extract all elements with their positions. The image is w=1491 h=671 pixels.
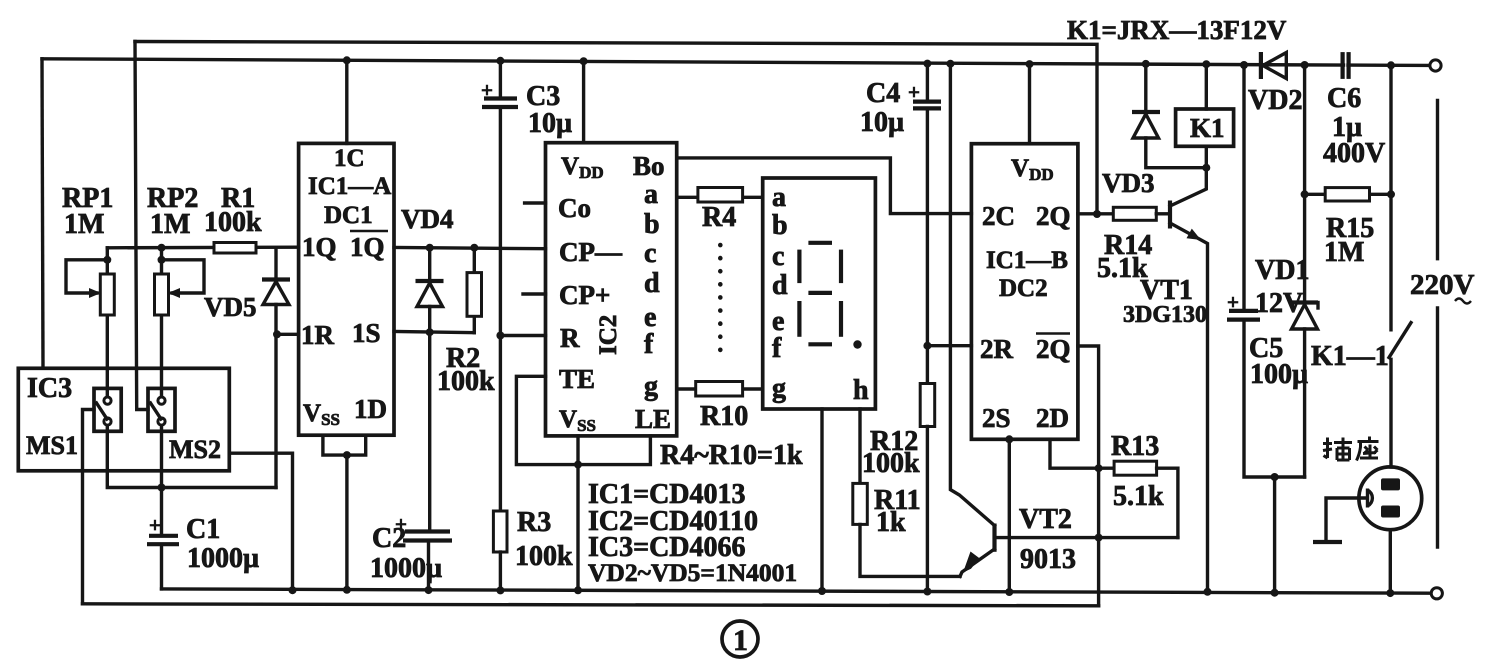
transistor VT1 [1170, 168, 1212, 596]
label R3 [515, 507, 573, 572]
svg-text:R: R [560, 323, 580, 353]
svg-text:400V: 400V [1323, 138, 1385, 169]
label R11 [874, 485, 921, 538]
svg-text:h: h [853, 375, 869, 406]
svg-text:VD3: VD3 [1102, 168, 1155, 198]
wire 2Q row [1078, 212, 1113, 215]
svg-text:MS2: MS2 [169, 435, 221, 464]
label C5 [1249, 333, 1308, 390]
resistor R14 [1113, 207, 1168, 220]
label K1-1 [1311, 341, 1389, 372]
svg-text:1S: 1S [352, 318, 381, 348]
svg-text:R13: R13 [1111, 431, 1159, 462]
terminal top [1430, 60, 1441, 71]
label R12 [862, 426, 920, 479]
diode VD5 [262, 248, 290, 488]
pin tick CP+ [523, 292, 546, 295]
svg-text:2Q: 2Q [1036, 334, 1071, 364]
box IC3 [18, 368, 229, 471]
wire 2Qbar line B [83, 604, 1099, 606]
wire 1Q row [107, 245, 298, 249]
node 2Q-R14 junction [1093, 210, 1101, 218]
capacitor C2 [395, 512, 452, 594]
resistor R1 [214, 243, 256, 254]
svg-text:100k: 100k [862, 448, 920, 479]
svg-text:1R: 1R [301, 320, 335, 350]
transistor VT2 [960, 524, 995, 577]
svg-text:1k: 1k [876, 507, 906, 538]
wire K1-1 branch [1387, 61, 1395, 330]
zener VD1 [1290, 303, 1318, 478]
svg-text:a: a [644, 179, 658, 210]
wire 1Qbar row to CP- [394, 248, 546, 249]
node H1 ground [289, 586, 297, 594]
svg-text:12V: 12V [1255, 288, 1303, 319]
node C1 tap [158, 484, 166, 492]
pin tick Co [525, 201, 546, 204]
svg-text:C4: C4 [866, 78, 900, 109]
svg-text:K1: K1 [1190, 113, 1225, 143]
node VD4 top [426, 244, 434, 252]
svg-text:1Q: 1Q [350, 232, 385, 262]
label C6 [1323, 83, 1385, 169]
svg-text:10µ: 10µ [528, 108, 572, 139]
svg-text:CP—: CP— [559, 237, 623, 267]
svg-text:R10: R10 [700, 401, 748, 432]
switch MS1 [94, 388, 121, 431]
svg-text:IC1—A: IC1—A [308, 173, 391, 200]
svg-text:220V: 220V [1410, 269, 1475, 301]
wire RP2 stem [160, 248, 163, 401]
label display pins [772, 182, 869, 406]
wire 2Q control top line [135, 42, 1097, 215]
svg-text:R3: R3 [517, 507, 551, 538]
svg-text:TE: TE [559, 364, 595, 394]
node R13 left junction [1095, 464, 1103, 472]
svg-text:VD4: VD4 [401, 204, 454, 234]
label 220V [1410, 269, 1475, 304]
wire 2R row [923, 342, 971, 350]
earth ground [1313, 498, 1367, 542]
svg-text:d: d [644, 268, 660, 299]
svg-text:f: f [772, 333, 782, 364]
svg-text:DC2: DC2 [999, 275, 1048, 302]
label MS1 [26, 431, 78, 460]
label IC list [588, 479, 797, 587]
label VT2 [1019, 504, 1076, 575]
svg-text:a: a [772, 182, 786, 213]
svg-text:MS1: MS1 [26, 431, 78, 460]
wire TE LE VSS loop [516, 376, 650, 594]
svg-text:2C: 2C [982, 201, 1015, 231]
wire MS2 out to C1 [160, 422, 163, 536]
wire rail to VT2 collector [946, 60, 994, 526]
label R15 [1324, 213, 1374, 268]
resistor R13 [1114, 461, 1178, 537]
svg-text:10µ: 10µ [860, 107, 904, 138]
svg-text:LE: LE [635, 404, 671, 434]
svg-text:1C: 1C [334, 145, 365, 172]
box IC2 [546, 143, 677, 436]
wire Bo to 2C [677, 158, 972, 214]
dotted R5-R9 [718, 245, 723, 362]
label R1 [204, 183, 262, 238]
wire R pin from C3R3 node [496, 332, 545, 340]
wire VDD IC2 [580, 57, 588, 143]
resistor R15 [1305, 188, 1395, 201]
svg-text:g: g [644, 371, 658, 402]
svg-text:f: f [644, 329, 654, 360]
box IC1-A [299, 143, 394, 435]
wire RP2 wiper loop [162, 260, 205, 298]
svg-text:VD2: VD2 [1248, 85, 1302, 116]
label VD5 [204, 292, 257, 322]
svg-text:2Q: 2Q [1036, 201, 1071, 231]
svg-text:VD1: VD1 [1255, 255, 1309, 286]
svg-text:K1=JRX—13F12V: K1=JRX—13F12V [1067, 15, 1287, 45]
svg-text:DC1: DC1 [324, 202, 373, 229]
switch K1-1 [1389, 323, 1411, 467]
resistor R3 [493, 511, 507, 594]
potentiometer RP2 [155, 274, 169, 315]
label C3 [526, 81, 572, 139]
wire RP1 wiper loop [66, 260, 107, 298]
svg-text:1000µ: 1000µ [187, 543, 259, 574]
resistor R11 [853, 483, 868, 524]
svg-text:C6: C6 [1327, 83, 1361, 114]
svg-text:b: b [772, 210, 788, 241]
svg-text:b: b [644, 209, 660, 240]
label R4 [702, 202, 736, 233]
wire g row [677, 387, 763, 390]
svg-text:1Q: 1Q [302, 232, 337, 262]
svg-text:IC3: IC3 [27, 373, 72, 404]
svg-text:C2: C2 [372, 523, 406, 554]
wire C5VD1 to ground [1271, 473, 1279, 597]
svg-text:100µ: 100µ [1250, 359, 1308, 390]
wire IC3 ground H1 [229, 453, 292, 590]
node RP2 top [158, 244, 166, 252]
wire 2D to R13 [1050, 439, 1114, 468]
svg-text:g: g [772, 373, 786, 404]
wire 1S row [394, 328, 474, 336]
label VD2 [1248, 85, 1302, 116]
diode VD4 [416, 248, 444, 529]
label R14 [1097, 230, 1152, 284]
wire 1C to rail [343, 56, 351, 143]
svg-text:VT2: VT2 [1019, 504, 1072, 535]
label R13 [1111, 431, 1164, 512]
switch MS2 [148, 388, 175, 431]
wire MS node H2 [107, 422, 276, 488]
svg-text:2S: 2S [982, 403, 1011, 433]
svg-text:c: c [644, 238, 656, 269]
svg-text:9013: 9013 [1020, 544, 1076, 575]
wire a row [677, 196, 763, 199]
potentiometer RP1 [100, 274, 114, 315]
label C1 [186, 514, 259, 574]
label socket [1323, 437, 1379, 461]
label MS2 [169, 435, 221, 464]
wire VSS 1D join [323, 435, 366, 594]
label R4-R10 [660, 440, 803, 471]
wire VDD IC1-B [1026, 60, 1034, 144]
wire R11 to VT2 emitter [860, 524, 960, 576]
socket outlet [1359, 467, 1422, 597]
capacitor C4 [908, 60, 941, 384]
7seg digit [799, 243, 861, 349]
svg-text:d: d [772, 270, 788, 301]
wire VT2 base row [995, 534, 1178, 542]
box IC1-B [971, 144, 1078, 440]
relay coil K1 [1176, 60, 1234, 168]
label VD4 [401, 204, 454, 234]
terminal bottom [1431, 588, 1442, 599]
capacitor C5 [1227, 61, 1305, 477]
wire MS1 control drop [83, 410, 95, 604]
label IC1-B pins [980, 155, 1071, 433]
wire left border VDD to IC3 [42, 59, 43, 369]
resistor R2 [467, 248, 482, 333]
wire VD1 drop [1301, 61, 1309, 300]
label C4 [860, 78, 904, 138]
resistor R4 [698, 188, 743, 203]
svg-text:1: 1 [733, 624, 748, 657]
svg-text:100k: 100k [437, 366, 495, 397]
label RP2 [147, 183, 198, 240]
svg-text:Co: Co [558, 193, 591, 223]
label IC1-A pins [301, 145, 391, 429]
svg-text:CP+: CP+ [559, 280, 610, 310]
wire MS2 control drop [135, 42, 148, 410]
wire RP1 stem [106, 248, 109, 401]
label IC3 [27, 373, 72, 404]
svg-text:R4: R4 [702, 202, 736, 233]
wire h to R11 [858, 409, 861, 483]
svg-text:1D: 1D [354, 394, 387, 424]
wire 2S to ground [1005, 435, 1013, 596]
svg-text:100k: 100k [204, 207, 262, 238]
svg-text:5.1k: 5.1k [1113, 481, 1164, 512]
label VD3 [1102, 168, 1155, 198]
svg-text:1M: 1M [150, 209, 190, 240]
wire 2Qbar to base [1078, 346, 1099, 606]
node RP1 wiper tap [103, 256, 111, 264]
svg-text:2D: 2D [1036, 403, 1069, 433]
svg-text:c: c [772, 241, 784, 272]
svg-text:C1: C1 [186, 514, 220, 545]
resistor R12 [920, 384, 935, 596]
label VD1 [1255, 255, 1309, 319]
resistor R10 [696, 382, 743, 397]
box 7seg display [763, 178, 876, 409]
capacitor C6 [1343, 52, 1349, 79]
wire 1R row [273, 330, 299, 338]
wire display common to ground [818, 409, 826, 595]
label IC2 pins [558, 151, 671, 435]
diode VD3 relay [1132, 60, 1210, 172]
capacitor C1 [147, 513, 179, 589]
svg-text:3DG130: 3DG130 [1123, 302, 1207, 328]
wire VDD rail [42, 59, 1430, 66]
label RP1 [62, 183, 113, 240]
svg-text:IC2: IC2 [595, 315, 622, 355]
svg-text:Bo: Bo [633, 151, 665, 181]
svg-text:+: + [149, 513, 161, 537]
label VT1 [1123, 275, 1207, 328]
svg-text:R4~R10=1k: R4~R10=1k [660, 440, 803, 471]
label K1 type [1067, 15, 1287, 45]
label C2 [370, 523, 442, 584]
node RP2 wiper tap [158, 256, 166, 264]
label R10 [700, 401, 748, 432]
svg-text:IC1—B: IC1—B [986, 247, 1068, 274]
svg-text:1M: 1M [64, 209, 104, 240]
svg-text:VD5: VD5 [204, 292, 257, 322]
wire ground line A [162, 589, 1430, 593]
svg-text:K1—1: K1—1 [1311, 341, 1389, 372]
label R2 [437, 343, 495, 397]
svg-text:VD2~VD5=1N4001: VD2~VD5=1N4001 [588, 558, 797, 587]
figure number 1 [722, 621, 758, 657]
svg-text:2R: 2R [980, 334, 1014, 364]
mains lead line [1436, 101, 1439, 548]
diode VD2 [1261, 52, 1286, 79]
capacitor C3 [481, 57, 518, 511]
svg-text:1000µ: 1000µ [370, 553, 442, 584]
svg-text:100k: 100k [515, 541, 573, 572]
node R2 top [470, 244, 478, 252]
svg-text:1M: 1M [1324, 237, 1364, 268]
